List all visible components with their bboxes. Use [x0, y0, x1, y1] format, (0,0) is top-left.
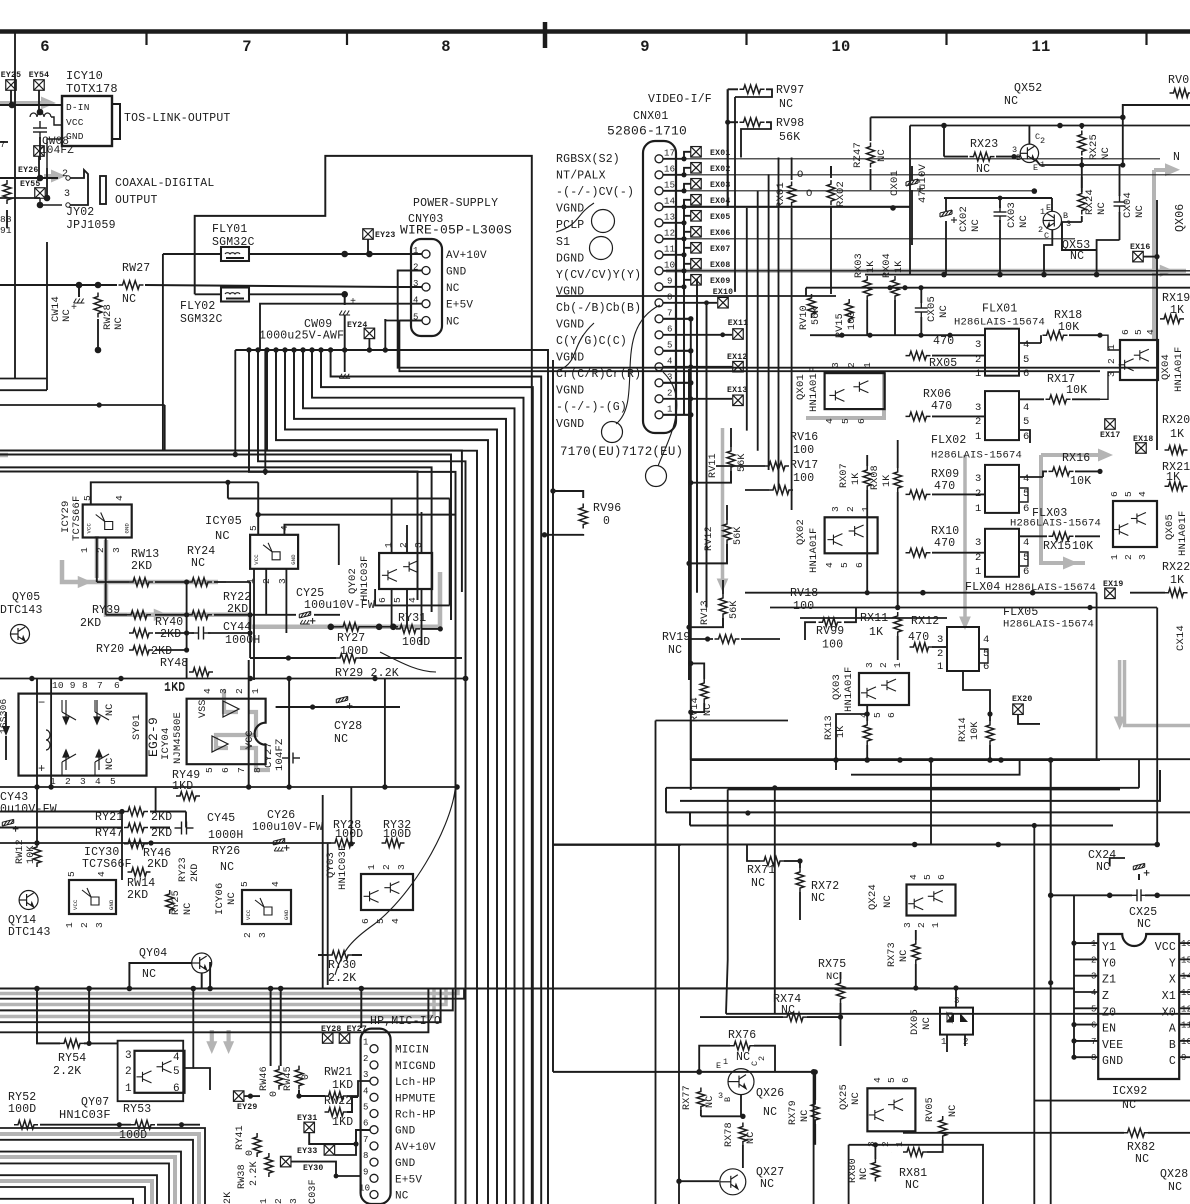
resistor RY25 vertical [166, 890, 174, 914]
svg-text:1: 1 [1040, 207, 1045, 217]
svg-text:EY25: EY25 [1, 71, 21, 80]
svg-text:RX07: RX07 [839, 463, 850, 488]
svg-text:91: 91 [0, 225, 12, 236]
svg-text:NC: NC [882, 895, 894, 908]
inductor JW [30, 113, 51, 117]
svg-text:3: 3 [64, 189, 70, 200]
left vertical x47 [46, 242, 48, 390]
wire rv14 col [690, 721, 692, 761]
resistor RX10 [906, 548, 931, 557]
svg-text:CX03: CX03 [1006, 202, 1018, 228]
svg-text:EY23: EY23 [375, 231, 395, 240]
svg-text:4: 4 [1023, 473, 1030, 485]
svg-text:NC: NC [921, 1017, 933, 1030]
resistor RW22 [325, 1108, 348, 1117]
svg-text:TOS-LINK-OUTPUT: TOS-LINK-OUTPUT [124, 112, 231, 125]
resistor RV11 vertical [727, 447, 735, 471]
vertical x361 down [360, 989, 362, 1029]
resistor RV17 [769, 486, 793, 495]
bus y787 long [0, 786, 457, 788]
svg-text:1: 1 [363, 1038, 369, 1048]
left vertical x15 [14, 32, 16, 379]
vertical x235 [234, 454, 236, 457]
h line y405 [0, 404, 165, 406]
svg-text:1: 1 [937, 661, 944, 673]
svg-text:NC: NC [826, 971, 839, 983]
svg-text:6: 6 [886, 712, 897, 718]
svg-text:HN1A01F: HN1A01F [843, 666, 855, 712]
svg-text:Lch-HP: Lch-HP [395, 1077, 436, 1089]
cap CY25 [299, 611, 315, 623]
resistor RW21 [325, 1092, 348, 1101]
svg-text:QX28: QX28 [1160, 1168, 1188, 1181]
svg-text:QX03: QX03 [831, 674, 843, 700]
resistor RX72 vertical [796, 868, 804, 892]
svg-text:1000H: 1000H [208, 829, 244, 842]
bottom left corner bundle [0, 1128, 205, 1204]
svg-text:RW46: RW46 [259, 1066, 270, 1091]
svg-text:4: 4 [173, 1052, 180, 1064]
svg-text:100: 100 [793, 444, 814, 457]
svg-text:NC: NC [1168, 1181, 1182, 1194]
IC ICY06 cell [242, 890, 291, 924]
svg-text:100D: 100D [8, 1103, 36, 1116]
svg-text:E: E [1033, 163, 1038, 173]
resistor RX23 [970, 152, 995, 161]
svg-text:NC: NC [395, 1191, 409, 1203]
svg-text:3: 3 [218, 688, 229, 694]
qy02 outer frame [375, 589, 450, 605]
svg-text:4: 4 [1137, 491, 1148, 497]
cap CY45 [175, 822, 194, 835]
svg-text:VSS: VSS [198, 699, 209, 718]
svg-text:3: 3 [975, 402, 982, 414]
vertical x813 down [813, 1072, 815, 1204]
svg-text:8: 8 [1091, 1053, 1097, 1063]
resistor rv0x [1170, 89, 1190, 98]
resistor RV19 [715, 635, 740, 644]
svg-text:H286LAIS-15674: H286LAIS-15674 [1010, 518, 1101, 530]
resistor RX15 [1049, 532, 1074, 541]
svg-text:10: 10 [359, 1184, 370, 1194]
svg-text:NC: NC [334, 733, 348, 746]
resistor RX24 vertical [1078, 190, 1086, 215]
svg-text:RX71: RX71 [747, 864, 775, 877]
svg-text:RW21: RW21 [324, 1066, 352, 1079]
resistor RW14b [128, 868, 151, 877]
svg-text:B: B [1169, 1039, 1176, 1052]
resistor RV10 vertical [808, 294, 816, 318]
svg-text:6: 6 [173, 1083, 180, 1095]
svg-text:CY44: CY44 [223, 621, 251, 634]
svg-text:GND: GND [395, 1158, 416, 1170]
svg-text:NC: NC [1096, 202, 1108, 215]
svg-text:EG2-9: EG2-9 [146, 717, 161, 757]
power box vertical down [531, 520, 533, 1204]
qx53 emitter wire [1044, 230, 1052, 275]
svg-text:EX16: EX16 [1130, 243, 1150, 252]
svg-text:0: 0 [245, 1150, 256, 1156]
svg-text:2: 2 [757, 1056, 767, 1061]
junction dots y285 [76, 282, 83, 289]
wire rv97 [728, 88, 738, 90]
svg-text:2KD: 2KD [80, 617, 101, 630]
svg-text:2KD: 2KD [151, 811, 172, 824]
svg-text:X0: X0 [1162, 1006, 1176, 1019]
cap CY44 [192, 627, 211, 640]
svg-text:4: 4 [1023, 339, 1030, 351]
gnd below cw09 [344, 350, 346, 372]
resistor RX17 [1046, 395, 1071, 404]
svg-text:HN1A01F: HN1A01F [1173, 346, 1185, 392]
svg-text:X1: X1 [1162, 990, 1176, 1003]
svg-text:VCC: VCC [66, 117, 84, 128]
qx04 stubs [1100, 335, 1120, 350]
svg-text:1KD: 1KD [332, 1116, 353, 1129]
svg-text:RX79: RX79 [788, 1100, 799, 1125]
wire fly01 west down [162, 254, 164, 451]
connector CNY03 body [411, 239, 442, 336]
svg-text:C: C [1035, 132, 1040, 142]
optical connector ICY10 body [62, 96, 112, 146]
opamp tri 2 [212, 736, 228, 752]
svg-text:EX20: EX20 [1012, 695, 1032, 704]
svg-text:104FZ: 104FZ [274, 738, 286, 771]
svg-text:DX05: DX05 [909, 1009, 921, 1035]
curve from connector 2 [658, 372, 677, 466]
vertical x164 icy29 [164, 405, 166, 451]
svg-text:RV10: RV10 [799, 305, 810, 330]
svg-text:NC: NC [779, 98, 793, 111]
svg-text:CY28: CY28 [334, 720, 362, 733]
svg-text:EY24: EY24 [347, 321, 367, 330]
svg-text:EY33: EY33 [297, 1147, 317, 1156]
thin vertical x735 [734, 97, 736, 292]
svg-text:10K: 10K [970, 721, 981, 740]
svg-text:NC: NC [668, 644, 682, 657]
svg-text:6: 6 [377, 597, 388, 603]
bus y1032 [0, 989, 428, 1033]
svg-text:100: 100 [793, 600, 814, 613]
svg-text:RY31: RY31 [398, 612, 426, 625]
left bus rows [0, 378, 47, 380]
svg-text:1: 1 [860, 506, 871, 512]
cap CX04 vertical [1114, 195, 1126, 213]
svg-text:NC: NC [1135, 1153, 1149, 1166]
svg-text:5: 5 [922, 874, 933, 880]
svg-text:NC: NC [763, 1106, 777, 1119]
svg-text:1KD: 1KD [172, 780, 193, 793]
QY02 pair [379, 553, 432, 589]
QX25 pair [867, 1088, 915, 1131]
h thick y1071.9 [553, 1071, 814, 1073]
svg-text:JY02: JY02 [66, 206, 94, 219]
svg-text:2: 2 [79, 922, 90, 928]
cap CW08 [33, 121, 47, 139]
svg-text:-(-/-)-(G): -(-/-)-(G) [556, 401, 627, 414]
svg-text:12: 12 [1181, 1004, 1190, 1014]
svg-text:MICGND: MICGND [395, 1061, 436, 1073]
svg-text:1: 1 [892, 662, 903, 668]
resistor RX11 vertical [894, 612, 902, 636]
resistor RZ47 vertical [867, 143, 875, 168]
svg-text:RV97: RV97 [776, 84, 804, 97]
wire pin5 NC east [385, 319, 400, 321]
svg-text:S1: S1 [556, 236, 570, 249]
svg-text:6: 6 [220, 767, 231, 773]
resistor RV97 [740, 85, 765, 94]
svg-text:3: 3 [864, 662, 875, 668]
svg-text:FLX02: FLX02 [931, 434, 967, 447]
opamp tri 1 [223, 701, 239, 717]
svg-text:52806-1710: 52806-1710 [607, 124, 687, 139]
resistor RY49 [176, 792, 200, 801]
h thick y988 right [680, 987, 930, 989]
svg-text:2KD: 2KD [151, 827, 172, 840]
svg-text:AV+10V: AV+10V [395, 1142, 436, 1154]
IC ICX92 body [1098, 934, 1179, 1079]
svg-text:1: 1 [366, 864, 377, 870]
svg-text:NC: NC [215, 529, 230, 543]
svg-text:EY54: EY54 [29, 71, 49, 80]
svg-text:A: A [1169, 1023, 1176, 1036]
svg-text:7: 7 [0, 140, 6, 150]
resistor RY41 vertical [253, 1133, 261, 1157]
svg-text:2: 2 [1123, 554, 1134, 560]
svg-text:FLX04: FLX04 [965, 581, 1001, 594]
resistor RY46 [124, 840, 148, 849]
svg-text:FLY01: FLY01 [212, 223, 248, 236]
cap CX05 [915, 301, 928, 319]
left vertical from row x235 [234, 350, 236, 455]
vertical x1157 long [1156, 608, 1158, 845]
svg-text:2: 2 [273, 1198, 284, 1204]
svg-text:VGND: VGND [556, 418, 584, 431]
svg-text:1: 1 [723, 1057, 728, 1067]
svg-text:1K: 1K [851, 473, 862, 485]
svg-text:8: 8 [252, 767, 263, 773]
svg-text:POWER-SUPPLY: POWER-SUPPLY [413, 197, 498, 210]
junction [37, 109, 44, 116]
FLX03 box [985, 465, 1019, 513]
svg-text:VCC: VCC [245, 730, 256, 749]
svg-text:1: 1 [930, 922, 941, 928]
svg-text:4: 4 [824, 418, 835, 424]
svg-text:4: 4 [1023, 537, 1030, 549]
svg-text:5: 5 [363, 1103, 369, 1113]
svg-text:RX15: RX15 [1043, 540, 1071, 553]
svg-text:Cb(-/B)Cb(B): Cb(-/B)Cb(B) [556, 302, 641, 315]
resistor RW13 [129, 578, 153, 587]
svg-text:14: 14 [1181, 972, 1190, 982]
svg-text:VGND: VGND [556, 385, 584, 398]
pin3 line [0, 284, 117, 286]
resistor RY30 [328, 951, 352, 960]
qy04 wires [209, 963, 212, 989]
svg-text:3: 3 [975, 473, 982, 485]
svg-text:Y(CV/CV)Y(Y): Y(CV/CV)Y(Y) [556, 269, 641, 282]
svg-text:QX02: QX02 [795, 519, 807, 545]
resistor RY29 [336, 654, 360, 663]
svg-text:C: C [1044, 231, 1049, 241]
svg-text:COAXAL-DIGITAL: COAXAL-DIGITAL [115, 177, 214, 190]
svg-text:470: 470 [931, 400, 952, 413]
test point EX17 [1105, 419, 1116, 430]
svg-text:5: 5 [886, 1077, 897, 1083]
svg-text:5: 5 [1133, 329, 1144, 335]
svg-text:RY47: RY47 [95, 827, 123, 840]
cap CX02 electrolytic [940, 210, 957, 223]
svg-text:8: 8 [441, 38, 451, 56]
svg-text:E: E [1046, 203, 1051, 213]
RV05 vertical [939, 1116, 947, 1140]
svg-text:2: 2 [975, 552, 982, 564]
RX80 vertical [871, 1159, 879, 1182]
svg-text:RV11: RV11 [708, 453, 719, 478]
svg-text:DTC143: DTC143 [0, 604, 43, 617]
svg-text:WIRE-05P-L300S: WIRE-05P-L300S [400, 223, 512, 238]
resistor RY48 [189, 668, 213, 677]
svg-text:NC: NC [976, 163, 990, 176]
svg-text:1000H: 1000H [225, 634, 261, 647]
svg-text:EX17: EX17 [1100, 431, 1120, 440]
svg-text:8: 8 [82, 680, 88, 691]
svg-text:100D: 100D [335, 828, 363, 841]
svg-text:VGND: VGND [556, 319, 584, 332]
resistor RX75 vertical [837, 979, 845, 1003]
RX79 vertical [811, 1100, 819, 1124]
svg-text:RX11: RX11 [860, 612, 888, 625]
RX78 vertical [739, 1123, 747, 1146]
resistor RX13 vertical [863, 721, 871, 745]
svg-text:6: 6 [363, 1119, 369, 1129]
transistor QY05 [11, 625, 30, 644]
svg-text:6: 6 [1109, 491, 1120, 497]
svg-text:QX01: QX01 [795, 374, 807, 400]
vertical x679 [678, 845, 680, 1204]
svg-text:2: 2 [1040, 136, 1045, 146]
svg-text:0: 0 [603, 515, 610, 528]
svg-text:2: 2 [381, 864, 392, 870]
svg-text:RW22: RW22 [324, 1095, 352, 1108]
svg-text:NC: NC [905, 1179, 919, 1192]
svg-text:RV17: RV17 [790, 459, 818, 472]
svg-text:DTC143: DTC143 [8, 926, 51, 939]
svg-text:NC: NC [705, 1096, 716, 1108]
resistor RX08 vertical [894, 468, 902, 492]
svg-text:2: 2 [234, 688, 245, 694]
resistor RW12 vertical [33, 843, 41, 867]
svg-text:2.2K: 2.2K [53, 1065, 81, 1078]
svg-text:RV96: RV96 [593, 502, 621, 515]
svg-text:1K: 1K [1170, 304, 1184, 317]
resistor RY32 [382, 839, 405, 848]
svg-text:NC: NC [183, 903, 194, 915]
svg-text:RV99: RV99 [816, 625, 844, 638]
resistor RX12 [910, 643, 933, 652]
svg-text:5: 5 [1091, 1004, 1097, 1014]
transistor pair QX01 [825, 373, 885, 409]
junction dots left [37, 175, 44, 182]
QX24 pair [907, 885, 956, 916]
svg-text:C: C [1169, 1055, 1176, 1068]
svg-text:NC: NC [948, 1105, 959, 1117]
svg-text:6: 6 [1023, 503, 1030, 515]
svg-text:NC: NC [876, 149, 888, 162]
svg-text:RX01: RX01 [775, 182, 787, 208]
left edge wires [0, 141, 8, 143]
svg-text:1: 1 [975, 503, 982, 515]
svg-text:2KD: 2KD [190, 863, 201, 882]
svg-text:RX73: RX73 [887, 942, 898, 967]
vertical x1034 bottom [1033, 826, 1035, 1204]
resistor RX19 [1160, 315, 1184, 324]
test point EX18 [1136, 443, 1147, 454]
svg-text:2: 2 [125, 1066, 132, 1078]
resistor RX16 [1049, 467, 1074, 476]
svg-text:QX06: QX06 [1174, 204, 1187, 232]
vertical x1074 [1073, 895, 1075, 1057]
svg-text:O: O [797, 169, 804, 181]
resistor RW45 vertical [295, 1066, 303, 1090]
svg-text:3: 3 [1091, 972, 1097, 982]
transistor QX27 [720, 1169, 746, 1195]
circle EU2 [646, 466, 667, 487]
svg-text:6: 6 [360, 918, 371, 924]
test point EY29 [233, 1091, 244, 1102]
resistor RX21 [1165, 482, 1188, 491]
DX05 diode pair [940, 1008, 973, 1035]
svg-text:CNX01: CNX01 [633, 110, 669, 123]
svg-text:470: 470 [934, 537, 955, 550]
test point EY54 [34, 80, 45, 91]
resistor RY47 [124, 823, 148, 832]
resistor RY21 [124, 807, 148, 816]
svg-text:FLX01: FLX01 [982, 303, 1018, 316]
svg-text:10K: 10K [1070, 475, 1091, 488]
resistor RW28 [94, 293, 102, 318]
svg-text:SGM32C: SGM32C [180, 313, 223, 326]
svg-text:10 9: 10 9 [52, 680, 76, 691]
test point EX19 [1105, 588, 1116, 599]
svg-text:56K: 56K [779, 131, 800, 144]
svg-text:NC: NC [191, 557, 205, 570]
svg-text:1: 1 [975, 368, 982, 380]
bus y592 [745, 592, 1097, 594]
svg-text:RW12: RW12 [15, 839, 26, 864]
svg-text:1K: 1K [1170, 574, 1184, 587]
svg-text:HN1C03F: HN1C03F [59, 1108, 111, 1122]
resistor RW46 vertical [275, 1066, 283, 1090]
resistor RX01 vertical [788, 182, 796, 207]
svg-text:RX03: RX03 [854, 253, 865, 278]
svg-text:EX07: EX07 [710, 245, 730, 254]
svg-text:2.2K: 2.2K [249, 1161, 260, 1186]
svg-text:+: + [71, 303, 77, 314]
svg-text:9: 9 [363, 1167, 369, 1177]
svg-text:88: 88 [0, 214, 12, 225]
svg-text:104FZ: 104FZ [40, 145, 74, 157]
svg-text:EX05: EX05 [710, 213, 730, 222]
svg-text:3: 3 [1106, 371, 1117, 377]
svg-text:56K: 56K [729, 600, 740, 619]
svg-text:H286LAIS-15674: H286LAIS-15674 [954, 317, 1045, 329]
transistor pair QX02 [825, 517, 878, 553]
svg-text:AV+10V: AV+10V [446, 250, 487, 262]
svg-text:GND: GND [124, 522, 131, 533]
vertical wire x689 [688, 369, 690, 680]
svg-text:NC: NC [1004, 95, 1018, 108]
